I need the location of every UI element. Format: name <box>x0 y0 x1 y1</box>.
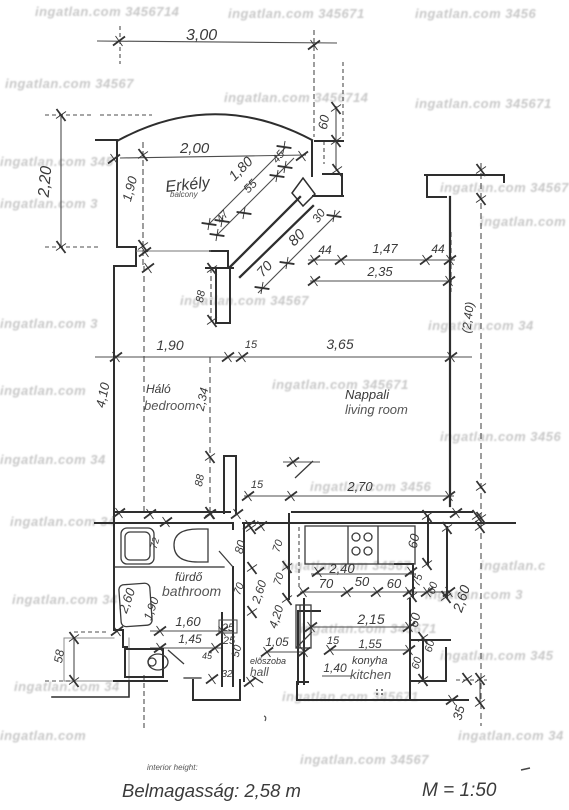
svg-text:Nappali: Nappali <box>345 387 390 402</box>
dim 3,00 line <box>97 41 337 43</box>
svg-text:44: 44 <box>318 243 332 257</box>
ext 2,34 <box>209 357 211 513</box>
balcony right wall <box>311 141 313 176</box>
bathtub <box>121 528 154 564</box>
hall right wall <box>289 514 320 684</box>
svg-text:1,05: 1,05 <box>265 635 289 649</box>
svg-text:2,70: 2,70 <box>346 479 373 494</box>
svg-text:1,60: 1,60 <box>175 614 201 629</box>
step box below corridor <box>193 680 240 700</box>
svg-text:ingatlan.com 3: ingatlan.com 3 <box>0 316 98 331</box>
svg-text:balcony: balcony <box>170 190 199 199</box>
ext right column <box>450 232 452 292</box>
toilet <box>148 654 168 670</box>
wall segment right of balcony <box>315 140 343 142</box>
dim 2,15 kitchen <box>311 626 410 628</box>
svg-text:ingatlan.com 345: ingatlan.com 345 <box>440 648 554 663</box>
svg-text:45: 45 <box>202 651 213 661</box>
svg-text:1,47: 1,47 <box>372 241 398 256</box>
dim 1,05 hall <box>267 651 304 653</box>
wall stub left of arc <box>96 139 117 141</box>
svg-text:bedroom: bedroom <box>144 398 195 413</box>
stray comma mark <box>264 716 266 721</box>
svg-text:2,15: 2,15 <box>356 611 384 627</box>
balcony arc <box>117 114 312 141</box>
hall left wall <box>243 525 245 681</box>
ext 4,10 <box>143 266 145 513</box>
svg-text:32: 32 <box>221 669 233 680</box>
dim 58 <box>73 638 75 681</box>
corridor wall lower left <box>222 613 233 686</box>
wc outer bottom <box>114 680 167 682</box>
diagonal wall upper line <box>230 197 300 267</box>
dim 70/80 diagonal <box>258 211 340 293</box>
bottom wall upper line <box>114 511 472 513</box>
door swings <box>219 551 233 567</box>
svg-text:ingatlan.com 34: ingatlan.com 34 <box>12 592 118 607</box>
balcony left wall <box>116 140 118 247</box>
svg-text:50: 50 <box>355 574 370 589</box>
niche walls <box>313 174 343 196</box>
svg-text:25: 25 <box>221 622 235 634</box>
dim 15/2,70 row <box>244 495 454 497</box>
dim row 1,90/15/3,65 <box>95 356 472 358</box>
short wall line top of stub2 <box>283 461 320 463</box>
divider stub bottom <box>224 456 236 513</box>
bottom wall lower line <box>95 522 515 524</box>
svg-text:15: 15 <box>327 635 340 647</box>
shaft right of kitchen <box>395 516 447 597</box>
dim 60 vertical (balcony right) <box>335 106 337 170</box>
svg-text:ingatlan.com 3: ingatlan.com 3 <box>425 587 523 602</box>
top-right structure <box>425 175 504 197</box>
kitchen counter <box>305 526 415 564</box>
dim 55 diagonal <box>216 158 294 236</box>
svg-text:ingatlan.com 34: ingatlan.com 34 <box>10 514 116 529</box>
svg-text:ingatlan.com 345671: ingatlan.com 345671 <box>415 96 552 111</box>
dim 44/1,47/44 row <box>308 259 455 261</box>
small dash mark <box>521 768 530 770</box>
kitchen lower right steps <box>410 638 450 681</box>
diagonal wall lower line <box>240 206 313 277</box>
svg-text:1,55: 1,55 <box>358 637 382 651</box>
svg-text:hall: hall <box>250 665 269 679</box>
bedroom left wall <box>113 266 115 513</box>
svg-text:2,40: 2,40 <box>328 561 355 576</box>
svg-text:fürdő: fürdő <box>175 570 203 584</box>
svg-text:living room: living room <box>345 402 408 417</box>
svg-text:ingatlan.com 34: ingatlan.com 34 <box>458 728 564 743</box>
right outer wall <box>449 197 451 506</box>
dash left of step box <box>184 677 201 679</box>
svg-text:2,00: 2,00 <box>179 140 210 157</box>
stove burners <box>352 533 360 541</box>
bathroom right wall (door gap) <box>232 524 234 613</box>
door diamond symbol <box>292 178 315 206</box>
dim 2,00 line <box>120 155 306 158</box>
ext 88 top stub <box>210 268 212 323</box>
svg-text:58: 58 <box>51 648 67 664</box>
svg-text:interior height:: interior height: <box>147 763 198 772</box>
svg-text:ingatlan.com 34567: ingatlan.com 34567 <box>300 752 429 767</box>
kitchen left wall <box>303 599 305 684</box>
divider stub top <box>216 268 230 323</box>
svg-text:2,35: 2,35 <box>366 264 393 279</box>
left protrusion outline <box>52 681 129 697</box>
kitchen bottom outline <box>297 682 468 700</box>
svg-text:60: 60 <box>387 576 402 591</box>
svg-text:konyha: konyha <box>352 655 387 667</box>
bedroom top-right corner <box>206 251 233 268</box>
thin window line bedroom top <box>136 250 211 252</box>
svg-text:ingatlan.com 345671: ingatlan.com 345671 <box>282 689 419 704</box>
dashes near kitchen bottom <box>456 679 487 681</box>
svg-text:ingatlan.com 3456714: ingatlan.com 3456714 <box>35 4 180 19</box>
svg-text:15: 15 <box>251 479 264 491</box>
svg-text:44: 44 <box>431 242 445 256</box>
dim 1,45 bath <box>150 647 222 649</box>
svg-text:1,40: 1,40 <box>323 661 347 675</box>
kitchen column <box>296 605 311 648</box>
svg-text:kitchen: kitchen <box>350 667 391 682</box>
svg-text:2,20: 2,20 <box>36 165 56 199</box>
dim 1,80 diagonal <box>208 147 286 225</box>
svg-text:3,00: 3,00 <box>186 27 217 44</box>
svg-text:bathroom: bathroom <box>162 583 221 599</box>
kitchen right wall <box>409 599 411 700</box>
svg-text:ingatlan.com 3456: ingatlan.com 3456 <box>440 429 561 444</box>
dim 2,20 line <box>60 115 62 248</box>
svg-text:1,45: 1,45 <box>178 632 202 646</box>
balcony bottom-left jog <box>114 247 136 266</box>
svg-text:ingatlan.com: ingatlan.com <box>0 728 86 743</box>
dim 1,60 bath <box>150 630 233 632</box>
svg-text:ingatlan.com 34: ingatlan.com 34 <box>0 452 106 467</box>
washbasin <box>174 529 208 562</box>
bathtub platform line <box>114 566 224 568</box>
dim 1,55 kitchen <box>330 649 410 651</box>
wc room <box>125 649 163 677</box>
svg-text:Belmagasság: 2,58 m: Belmagasság: 2,58 m <box>122 780 301 801</box>
svg-text:ingatlan.com 3456: ingatlan.com 3456 <box>415 6 536 21</box>
svg-text:ingatlan.com: ingatlan.com <box>0 383 86 398</box>
svg-text:70: 70 <box>319 576 334 591</box>
dim 2,40 kitchen <box>311 573 415 575</box>
svg-text:ingatlan.com 34567: ingatlan.com 34567 <box>5 76 134 91</box>
svg-text:1,90: 1,90 <box>156 337 183 353</box>
svg-text:M = 1:50: M = 1:50 <box>422 780 497 801</box>
ext bottom hall <box>143 675 145 730</box>
svg-text:ingatlan.com 345671: ingatlan.com 345671 <box>228 6 365 21</box>
dim 1,90 vertical balcony <box>142 142 144 266</box>
kitchen dim row 70/50/60 <box>300 591 450 593</box>
svg-text:3,65: 3,65 <box>326 336 353 352</box>
dim 1,40 kitchen <box>322 675 352 677</box>
colon marks kitchen <box>376 689 378 691</box>
bathroom bottom-left jog <box>114 513 127 647</box>
washing machine <box>119 583 153 627</box>
svg-text:ingatlan.c: ingatlan.c <box>480 558 546 573</box>
svg-text:ingatlan.com 3456714: ingatlan.com 3456714 <box>224 90 369 105</box>
dim 35 bottom <box>479 679 481 703</box>
svg-text:ingatlan.com 345: ingatlan.com 345 <box>0 154 114 169</box>
svg-text:Háló: Háló <box>146 382 171 396</box>
svg-text:ingatlan.com: ingatlan.com <box>480 214 566 229</box>
svg-text:15: 15 <box>245 339 258 351</box>
dim 2,35 row <box>310 280 452 282</box>
